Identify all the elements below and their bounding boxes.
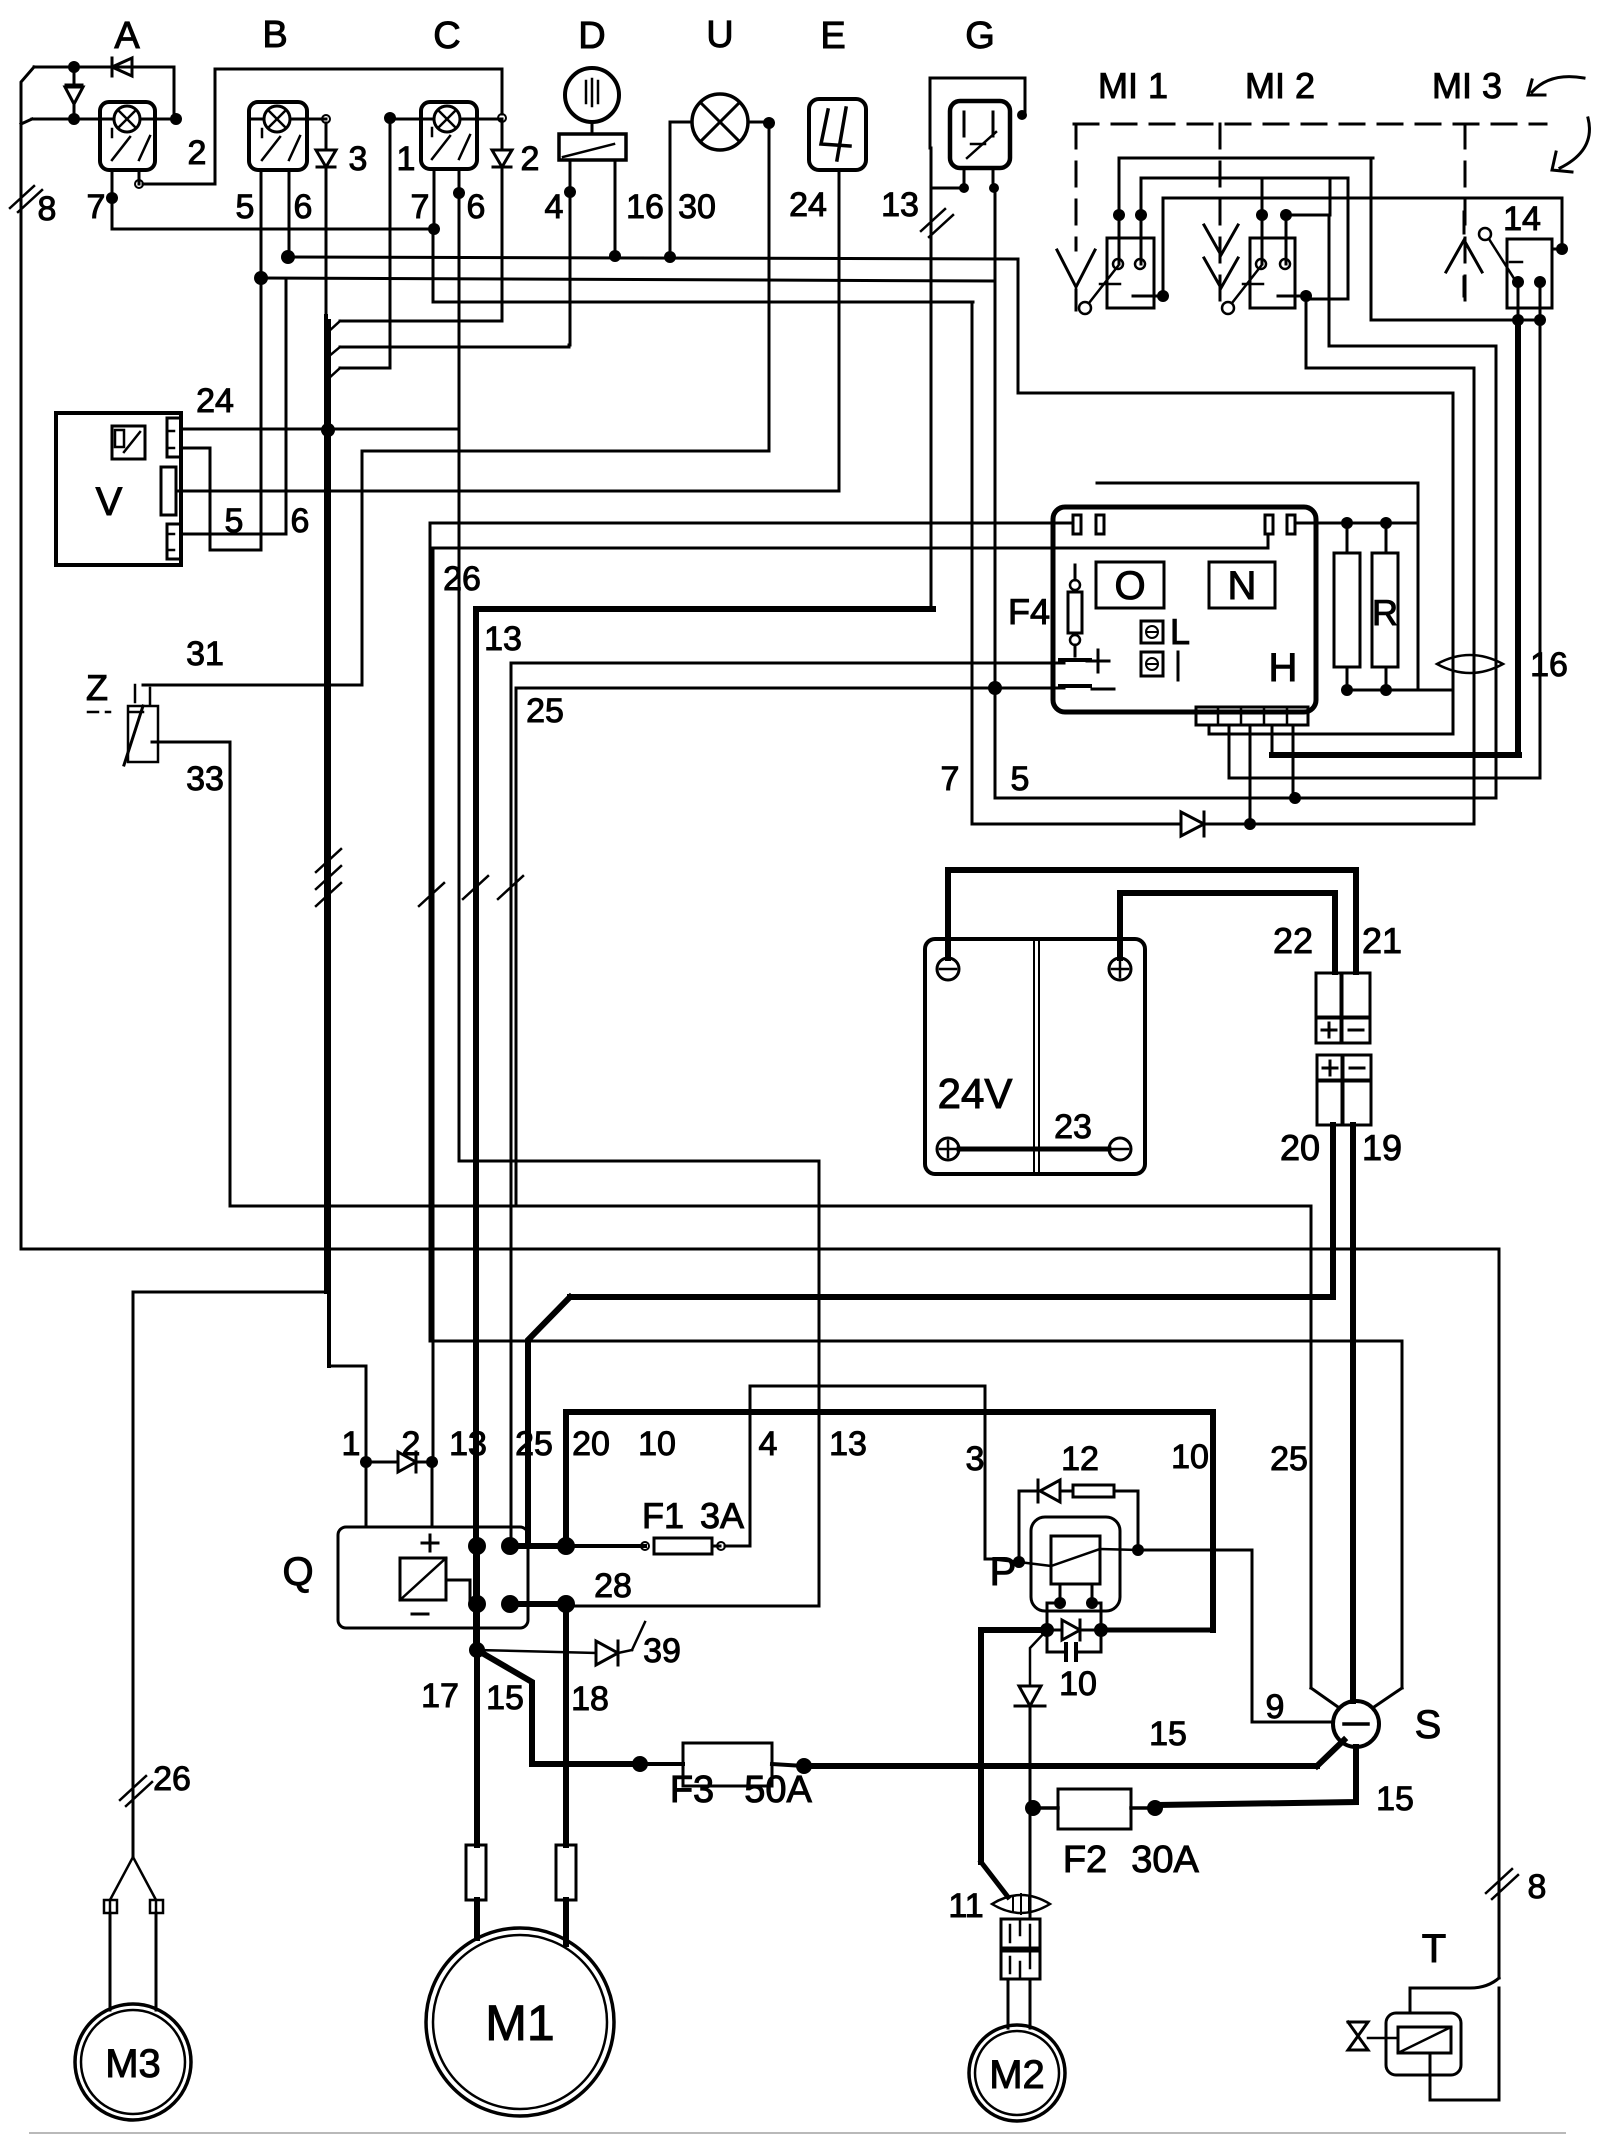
wire 23 bar [959,1147,1109,1152]
lamp-switch A box [100,102,155,170]
bracket G [930,78,1027,148]
relay P outer [1031,1517,1120,1611]
dashed MI3 [1464,124,1467,310]
wire B lamp left [252,118,264,121]
node 14 pins [1512,276,1546,288]
label 3 [349,140,368,178]
wire riser 26 [430,523,1073,1341]
wire Q pin bridge [510,1537,575,1555]
svg-text:8: 8 [38,190,57,228]
wire A right drop [173,67,176,119]
label 25b [526,692,564,730]
svg-text:19: 19 [1362,1127,1402,1168]
label 33 [186,760,224,798]
label MI 1 [1098,65,1168,106]
wire A left [21,119,113,124]
wire bus2 [261,278,995,281]
symbol Q plus [422,1535,438,1551]
label B [262,14,287,56]
wire P coil pins [1047,1584,1101,1630]
lamp C [434,106,460,132]
label 2 [521,140,540,178]
label 39 [643,1632,681,1670]
wire top bus [215,68,502,71]
switch 14 pivot [1479,228,1522,280]
node U 30 [664,251,676,263]
label A [114,15,140,57]
label col 12 [1061,1440,1099,1478]
lamp A [114,106,140,132]
svg-text:26: 26 [443,560,481,598]
wire 9 run [1252,1721,1333,1724]
label F3 50A [670,1769,813,1811]
wire hatch riser 13 [463,876,488,899]
switch MI1 pinA [1113,158,1125,269]
label F1 [642,1495,684,1536]
svg-text:F4: F4 [1008,591,1050,632]
switch G box [950,101,1010,168]
wire 15 F3 run [532,1743,1317,1786]
battery divider [1034,939,1039,1174]
svg-text:F3: F3 [670,1769,714,1811]
label P [990,1550,1017,1594]
svg-text:C: C [433,15,460,57]
relay T [1398,2027,1451,2053]
switch Z [88,685,158,765]
svg-text:2: 2 [521,140,540,178]
switch B blade [262,129,300,160]
wire C pin6 [458,169,461,1161]
label 1 [397,140,416,178]
label MI 3 [1432,65,1502,106]
connector V tabs [161,418,181,559]
symbol E glyph [821,108,850,160]
wire 31 [143,684,362,687]
switch MI2 box [1250,238,1295,308]
svg-text:F1: F1 [642,1495,684,1536]
svg-text:33: 33 [186,760,224,798]
svg-text:24V: 24V [938,1070,1013,1117]
wire 7 run [972,302,1178,824]
wire B pin6 [288,170,291,257]
wire H3 [1163,197,1562,200]
wire pin3 [1249,725,1252,824]
wire G pins [931,168,999,193]
node minus junction [988,681,1002,695]
label 9 [1266,1688,1285,1726]
svg-text:3A: 3A [700,1495,744,1536]
switch C blade [432,128,470,159]
svg-text:8: 8 [1528,1868,1547,1906]
wire T feed [1410,1978,1499,2013]
wire bundle pair [326,316,329,1366]
wire P to zener [1030,1630,1047,1686]
svg-text:6: 6 [294,188,313,226]
svg-text:6: 6 [467,188,486,226]
motor S [1333,1701,1379,1747]
label 6 [467,188,486,226]
label 6b [291,502,310,540]
svg-text:15: 15 [1149,1715,1187,1753]
wire riser plus [511,663,1064,1546]
svg-text:9: 9 [1266,1688,1285,1726]
svg-text:Z: Z [86,667,108,708]
svg-text:M1: M1 [485,1995,554,2051]
diode Q12 [360,1452,438,1472]
switch MI1 blade [1079,266,1120,314]
label 26 [443,560,481,598]
switch MI2 pinB [1280,209,1292,269]
svg-text:U: U [706,14,733,56]
label 7 [87,188,106,226]
wire 15 S diag [1317,1740,1344,1766]
svg-text:24: 24 [196,382,234,420]
relay V inner [112,426,145,459]
svg-text:4: 4 [759,1425,778,1463]
arrow MI1 [1057,250,1095,310]
label 13 [881,186,919,224]
box T [1386,2013,1461,2075]
svg-text:7: 7 [411,188,430,226]
node bus1 left [281,250,295,264]
relay P coil [1019,1536,1100,1584]
loop 12 [1019,1480,1138,1562]
label 30 [678,188,716,226]
wire F2 drop [1029,1808,1032,1919]
label col 3 [966,1440,985,1478]
svg-text:13: 13 [484,620,522,658]
node pin5 [1289,792,1301,804]
wire bundle to Q1 [330,1366,366,1462]
label col 1 [342,1425,361,1463]
wire U right 24 [362,117,775,685]
label 7 [411,188,430,226]
label 17 [421,1677,459,1715]
wire MI1 common [1133,198,1169,302]
label 5c [1011,760,1030,798]
diode 7 line [1181,812,1474,836]
box H outer [1097,483,1418,690]
wire B lamp right [290,115,330,123]
label 15c [1376,1780,1414,1818]
wire R bottom [1347,689,1453,692]
switch MI2 blade [1222,266,1263,314]
label 19 [1362,1127,1402,1168]
lens 11 [992,1895,1050,1913]
svg-text:16: 16 [626,188,664,226]
wire C right terminal [460,69,506,122]
wire D pin16 [614,160,617,256]
wire 33 [152,742,230,1206]
node pin3 [1244,818,1256,830]
wire hatch 26 [120,1776,152,1806]
node C pin6 [453,187,465,199]
label 20 [1280,1127,1320,1168]
wire 14 feed [1552,198,1568,255]
svg-text:4: 4 [545,188,564,226]
arrow MI3 [1446,212,1482,296]
socket I [1141,652,1178,680]
svg-text:25: 25 [1270,1440,1308,1478]
label F2 30A [1063,1839,1200,1881]
fuse F4 [1068,565,1082,656]
svg-text:2: 2 [188,134,207,172]
tab H t2 [1265,515,1295,534]
svg-text:12: 12 [1061,1440,1099,1478]
label 23 [1054,1108,1092,1146]
wire M2 cable [1008,1979,1030,2028]
wire 4 to P3 [750,1386,985,1559]
svg-text:7: 7 [941,760,960,798]
switch MI2 pinA [1256,178,1268,269]
wire hatch riser 25 [498,876,523,899]
wire bat minus 21 [948,870,1356,972]
wire hatch bundle [316,849,341,906]
label S [1415,1703,1442,1747]
diode P 10 [1047,1620,1101,1640]
dashed MI2 [1219,124,1222,310]
valve T [1348,2022,1398,2050]
label F4 [1008,591,1050,632]
arrow curved 1 [1528,77,1584,95]
switch MI1 pinB [1135,178,1147,269]
wire C lamp left [384,112,434,368]
lens 16 [1437,655,1503,673]
wire Q 17 drop [469,1546,485,1658]
diode 2 vertical [492,122,512,321]
svg-text:3: 3 [349,140,368,178]
label V [96,480,123,524]
fuse block lower signs [1323,1061,1364,1075]
label 10c [1059,1665,1097,1703]
node A top [68,61,80,73]
svg-text:39: 39 [643,1632,681,1670]
wire A lamp right stub [140,118,176,121]
svg-text:5: 5 [225,502,244,540]
svg-text:10: 10 [1059,1665,1097,1703]
label col 10b [1171,1438,1209,1476]
label C [433,15,460,57]
label D [578,15,605,57]
svg-text:3: 3 [966,1440,985,1478]
fuse F2 [1025,1789,1163,1829]
wire hook 4 [328,160,570,357]
label col 10 [638,1425,676,1463]
label G [965,15,995,57]
box O [1096,562,1164,608]
wire A top [34,66,174,69]
svg-text:22: 22 [1273,920,1313,961]
wire G right leg [994,188,997,798]
wire A pin7 [111,170,114,229]
dashed box top [1074,123,1546,126]
svg-text:10: 10 [1171,1438,1209,1476]
wire bus1 drop [1018,259,1453,393]
lamp-switch B box [249,102,307,170]
wire hatch riser 26 [419,883,444,906]
label 5b [225,502,244,540]
label 24 [789,186,827,224]
cap P 10 [1047,1630,1101,1660]
label 8 [38,190,57,228]
wire P to M2 thick [981,1630,1047,1862]
svg-text:F2: F2 [1063,1839,1107,1881]
switch A blade [112,129,150,160]
wire tab2 stub [1267,534,1270,548]
wire hook 3 [328,368,390,379]
label 11 [948,1887,983,1925]
wire C pin1 [433,169,973,302]
wire MI2 common [1278,290,1474,824]
label Z [86,667,108,708]
diode D-A2 vertical [65,67,83,119]
box N [1209,562,1275,608]
fuse block upper signs [1322,1023,1363,1037]
motor M2 [969,2025,1065,2121]
label col 25 [515,1425,553,1463]
wire left edge [21,67,34,1249]
svg-text:11: 11 [948,1887,983,1925]
wire H2 [1141,177,1348,180]
svg-text:15: 15 [486,1679,524,1717]
wire riser minus [516,688,1064,1206]
label col 25b [1270,1440,1308,1478]
label 31 [186,635,224,673]
svg-text:5: 5 [236,188,255,226]
box Q [338,1527,528,1628]
label col 20 [572,1425,610,1463]
wire left run [21,1249,1499,1978]
label 22 [1273,920,1313,961]
label col 4 [759,1425,778,1463]
label 26b [153,1760,191,1798]
fuse block upper [1316,973,1370,1043]
switch G inner [964,112,996,158]
label 14 [1503,200,1541,238]
fuse block lower [1317,1055,1371,1125]
wire R top [1295,517,1418,529]
wire M3 fork [104,1857,163,2010]
wire bus3 [433,301,973,304]
wire S bottom [1160,1747,1356,1805]
box V [56,413,181,565]
dashed MI1 [1075,124,1078,250]
label 15a [486,1679,524,1717]
label 24 V [196,382,234,420]
wire V tab1 24 [181,169,459,437]
label 16b [1530,646,1568,684]
svg-text:13: 13 [881,186,919,224]
label E [820,15,845,57]
arrow curved 2 [1552,118,1589,172]
label 4 [545,188,564,226]
svg-text:T: T [1422,1927,1446,1971]
battery term minus [937,958,959,980]
svg-text:2: 2 [402,1425,421,1463]
node C pin1 junction [428,223,440,235]
wire 7 to C [112,228,434,231]
wire T bottom [1430,1988,1499,2100]
svg-text:5: 5 [1011,760,1030,798]
svg-text:20: 20 [572,1425,610,1463]
label 15b [1149,1715,1187,1753]
node bus2 left [254,271,268,285]
node Q pins top [468,1537,519,1555]
svg-text:N: N [1228,564,1257,608]
node P lower [1040,1623,1108,1637]
diode 39 [477,1622,645,1665]
wire Q out bottom [510,1595,575,1613]
wire U left [670,122,692,257]
resistor R2 [1372,523,1398,696]
wire 19 [1350,1125,1356,1701]
battery term plus [1109,958,1131,980]
wire V mid [176,490,839,493]
box H main [1053,507,1316,712]
svg-text:O: O [1114,564,1145,608]
symbol Q minus [412,1613,428,1616]
diode D-A horizontal [74,58,174,76]
arrow MI2 double [1204,225,1238,288]
wire V tab2 [181,448,261,550]
wire D pin4 [569,160,572,345]
wire M1 left [466,1650,486,1938]
svg-text:7: 7 [87,188,106,226]
svg-text:26: 26 [153,1760,191,1798]
symbol Q rect [400,1558,446,1600]
label 8b [1528,1868,1547,1906]
wire pin1 [1209,393,1453,734]
wire Q1 leg [365,1462,368,1527]
label 5 [236,188,255,226]
svg-text:28: 28 [594,1567,632,1605]
wire A pin2 [135,69,215,188]
svg-text:E: E [820,15,845,57]
wire M3 26 [133,1292,326,1857]
motor M3 [75,2004,191,2120]
terminal minus [1060,686,1114,689]
fuse F1 [510,1538,750,1554]
label T [1422,1927,1446,1971]
label 28 [594,1567,632,1605]
lamp B [264,106,290,132]
gauge D [565,68,619,122]
label col 2 [402,1425,421,1463]
wire pin5 [1292,725,1295,798]
wire P right bottom [1101,1628,1213,1633]
wire pin2 [1229,725,1540,778]
svg-text:Q: Q [282,1550,313,1594]
svg-text:1: 1 [342,1425,361,1463]
svg-text:M3: M3 [105,2042,161,2086]
terminal plus [1060,650,1109,672]
svg-text:B: B [262,14,287,56]
label 24V [938,1070,1013,1117]
node A diode junction [68,113,80,125]
svg-text:30: 30 [678,188,716,226]
label MI 2 [1245,65,1315,106]
node 7 [106,192,118,204]
node Q pins bottom [468,1595,519,1613]
diode 3 vertical [316,123,336,316]
wire S diagL [1311,1688,1338,1707]
label 18 [571,1680,609,1718]
wire G 13 drop [930,148,933,607]
svg-text:L: L [1170,611,1190,652]
wire hatch 8b [1486,1869,1518,1899]
svg-text:M2: M2 [989,2053,1045,2097]
wire H1 [1119,157,1373,160]
